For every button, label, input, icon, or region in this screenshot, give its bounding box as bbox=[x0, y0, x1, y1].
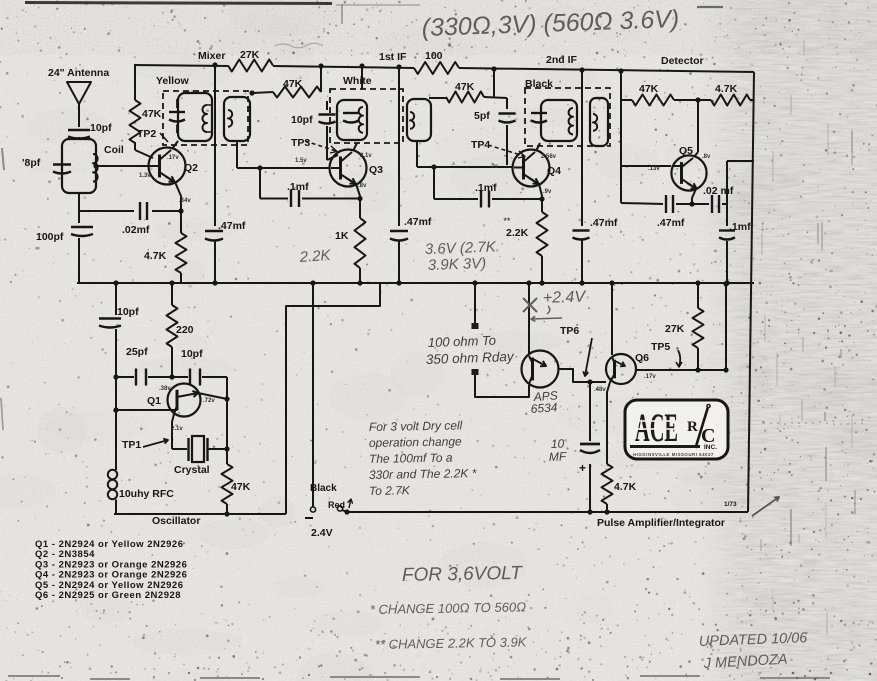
svg-text:47K: 47K bbox=[283, 78, 303, 90]
svg-text:47K: 47K bbox=[639, 83, 659, 95]
svg-text:2.1v: 2.1v bbox=[171, 426, 183, 432]
svg-text:3.9K 3V): 3.9K 3V) bbox=[428, 255, 487, 274]
svg-text:ACE: ACE bbox=[635, 405, 678, 450]
svg-text:Q2: Q2 bbox=[184, 162, 198, 174]
svg-text:100: 100 bbox=[425, 50, 443, 62]
svg-text:.47mf: .47mf bbox=[657, 217, 685, 229]
svg-text:.9v: .9v bbox=[543, 189, 552, 195]
svg-text:.17v: .17v bbox=[644, 374, 656, 380]
svg-text:10uhy RFC: 10uhy RFC bbox=[119, 488, 174, 500]
svg-text:Crystal: Crystal bbox=[174, 464, 210, 476]
svg-text:330r and The 2.2K *: 330r and The 2.2K * bbox=[369, 466, 477, 482]
svg-text:To 2.7K: To 2.7K bbox=[369, 483, 411, 498]
svg-text:.72v: .72v bbox=[203, 398, 215, 404]
svg-text:.47mf: .47mf bbox=[590, 217, 618, 229]
svg-text:47K: 47K bbox=[142, 108, 162, 120]
svg-text:.02 mf: .02 mf bbox=[703, 185, 734, 197]
svg-text:.48v: .48v bbox=[594, 387, 606, 393]
svg-text:INC.: INC. bbox=[704, 444, 717, 451]
svg-text:2.56v: 2.56v bbox=[541, 154, 557, 160]
svg-text:TP4: TP4 bbox=[471, 139, 490, 151]
svg-text:Red: Red bbox=[328, 500, 345, 510]
svg-text:MF: MF bbox=[549, 449, 567, 464]
svg-text:Q4: Q4 bbox=[547, 165, 561, 177]
svg-text:Q5: Q5 bbox=[679, 145, 693, 157]
svg-text:10pf: 10pf bbox=[90, 122, 112, 134]
svg-text:100 ohm To: 100 ohm To bbox=[428, 333, 497, 350]
svg-text:Yellow: Yellow bbox=[156, 75, 190, 87]
svg-text:27K: 27K bbox=[240, 49, 260, 61]
svg-text:47K: 47K bbox=[455, 81, 475, 93]
svg-text:.38v: .38v bbox=[159, 386, 171, 392]
svg-text:1st IF: 1st IF bbox=[379, 51, 407, 63]
svg-text:TP2: TP2 bbox=[137, 128, 156, 140]
svg-text:1K: 1K bbox=[335, 230, 349, 242]
svg-text:Coil: Coil bbox=[104, 144, 124, 156]
svg-text:2nd IF: 2nd IF bbox=[546, 54, 578, 66]
svg-text:The 100mf To a: The 100mf To a bbox=[369, 451, 453, 466]
svg-text:2.4V: 2.4V bbox=[311, 527, 333, 539]
svg-text:220: 220 bbox=[176, 324, 194, 336]
svg-text:*: * bbox=[447, 41, 452, 53]
svg-text:4.7K: 4.7K bbox=[614, 481, 637, 493]
svg-text:4.7K: 4.7K bbox=[715, 83, 738, 95]
svg-text:'8pf: '8pf bbox=[22, 157, 41, 169]
svg-text:24" Antenna: 24" Antenna bbox=[48, 67, 109, 79]
svg-text:.47mf: .47mf bbox=[404, 216, 432, 228]
svg-text:5pf: 5pf bbox=[474, 110, 490, 122]
svg-text:TP3: TP3 bbox=[291, 137, 310, 149]
svg-text:Q1: Q1 bbox=[147, 395, 161, 407]
svg-text:.13v: .13v bbox=[648, 166, 660, 172]
svg-text:Detector: Detector bbox=[661, 55, 704, 67]
svg-text:FOR 3,6VOLT: FOR 3,6VOLT bbox=[402, 563, 524, 586]
svg-text:6534: 6534 bbox=[530, 400, 558, 416]
svg-text:1.3v: 1.3v bbox=[139, 173, 151, 179]
svg-text:25pf: 25pf bbox=[126, 346, 148, 358]
svg-text:**: ** bbox=[503, 216, 511, 226]
svg-text:Oscillator: Oscillator bbox=[152, 515, 200, 527]
svg-text:47K: 47K bbox=[231, 481, 251, 493]
svg-text:10pf: 10pf bbox=[181, 348, 203, 360]
svg-text:Black: Black bbox=[525, 78, 553, 90]
svg-text:2.1v: 2.1v bbox=[360, 153, 372, 159]
svg-text:7v: 7v bbox=[491, 164, 498, 170]
svg-text:+: + bbox=[579, 461, 586, 475]
svg-text:350 ohm Rday: 350 ohm Rday bbox=[426, 349, 516, 367]
svg-text:2.2K: 2.2K bbox=[506, 227, 529, 239]
svg-text:10pf: 10pf bbox=[291, 114, 313, 126]
svg-text:White: White bbox=[343, 75, 372, 87]
svg-text:TP5: TP5 bbox=[651, 341, 670, 353]
svg-text:Pulse Amplifier/Integrator: Pulse Amplifier/Integrator bbox=[597, 517, 725, 529]
svg-text:HIGGINSVILLE MISSOURI 64037: HIGGINSVILLE MISSOURI 64037 bbox=[633, 452, 714, 457]
svg-text:.8v: .8v bbox=[358, 183, 367, 189]
svg-text:Q3: Q3 bbox=[369, 164, 383, 176]
svg-text:R: R bbox=[687, 419, 698, 435]
svg-text:+2.4V: +2.4V bbox=[543, 288, 587, 307]
svg-text:.17v: .17v bbox=[167, 155, 179, 161]
svg-text:.1mf: .1mf bbox=[287, 181, 309, 193]
svg-text:.34v: .34v bbox=[179, 198, 191, 204]
svg-text:Q6 - 2N2925 or Green 2N29: Q6 - 2N2925 or Green 2N2928 bbox=[35, 590, 181, 601]
svg-text:For 3 volt Dry cell: For 3 volt Dry cell bbox=[369, 418, 463, 434]
svg-text:TP1: TP1 bbox=[122, 439, 141, 451]
svg-text:2.2K: 2.2K bbox=[298, 247, 332, 266]
svg-text:4.7K: 4.7K bbox=[144, 250, 167, 262]
svg-text:1.5v: 1.5v bbox=[295, 158, 307, 164]
svg-text:* CHANGE 100Ω TO 560Ω: * CHANGE 100Ω TO 560Ω bbox=[370, 599, 526, 617]
svg-text:Black: Black bbox=[310, 483, 337, 494]
svg-text:.8v: .8v bbox=[702, 154, 711, 160]
svg-text:100pf: 100pf bbox=[36, 231, 64, 243]
svg-text:10pf: 10pf bbox=[117, 306, 139, 318]
svg-text:.1mf: .1mf bbox=[475, 182, 497, 194]
svg-text:operation change: operation change bbox=[369, 434, 462, 450]
svg-text:1/73: 1/73 bbox=[724, 501, 737, 508]
svg-text:** CHANGE 2.2K TO 3.9K: ** CHANGE 2.2K TO 3.9K bbox=[375, 634, 528, 652]
svg-text:.1mf: .1mf bbox=[729, 221, 751, 233]
svg-text:.47mf: .47mf bbox=[218, 220, 246, 232]
svg-text:TP6: TP6 bbox=[560, 325, 579, 337]
svg-text:.02mf: .02mf bbox=[122, 224, 150, 236]
svg-text:27K: 27K bbox=[665, 323, 685, 335]
svg-text:Mixer: Mixer bbox=[198, 50, 225, 62]
svg-text:Q6: Q6 bbox=[635, 352, 649, 364]
